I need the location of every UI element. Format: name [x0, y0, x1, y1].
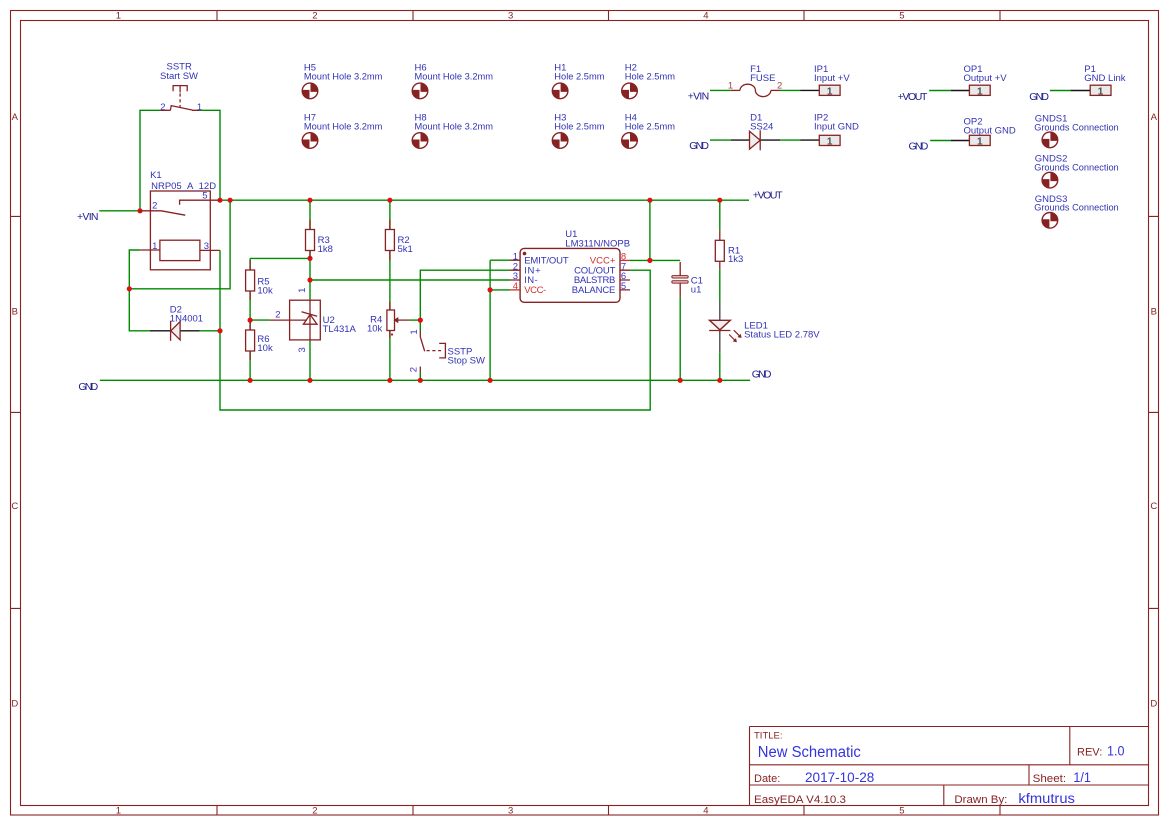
svg-text:Sheet:: Sheet: [1033, 773, 1067, 785]
svg-text:GND: GND [909, 140, 929, 152]
svg-text:1: 1 [728, 80, 733, 91]
svg-text:+VIN: +VIN [77, 211, 99, 223]
svg-text:2: 2 [160, 102, 165, 113]
svg-text:GND: GND [78, 381, 98, 393]
svg-text:1/1: 1/1 [1073, 770, 1091, 785]
svg-text:Hole 2.5mm: Hole 2.5mm [554, 71, 604, 82]
svg-text:2: 2 [409, 367, 420, 372]
svg-text:TL431A: TL431A [323, 324, 357, 335]
svg-text:D: D [1150, 698, 1157, 709]
svg-text:1: 1 [152, 241, 157, 252]
svg-text:3: 3 [204, 241, 209, 252]
svg-text:+VOUT: +VOUT [898, 91, 928, 103]
svg-text:Mount Hole 3.2mm: Mount Hole 3.2mm [415, 71, 494, 82]
svg-text:LM311N/NOPB: LM311N/NOPB [565, 238, 630, 249]
svg-text:FUSE: FUSE [750, 73, 775, 84]
svg-text:2: 2 [312, 806, 317, 817]
svg-text:Hole 2.5mm: Hole 2.5mm [554, 121, 604, 132]
svg-text:2: 2 [152, 201, 157, 212]
svg-text:10k: 10k [367, 323, 383, 334]
svg-text:3: 3 [508, 806, 513, 817]
svg-text:GND: GND [1029, 91, 1049, 103]
svg-text:Drawn By:: Drawn By: [954, 794, 1007, 806]
svg-text:1N4001: 1N4001 [170, 313, 203, 324]
svg-text:1: 1 [197, 102, 202, 113]
svg-text:Status LED 2.78V: Status LED 2.78V [744, 329, 820, 340]
svg-text:K1: K1 [150, 170, 162, 181]
svg-text:5k1: 5k1 [398, 244, 413, 255]
svg-text:1: 1 [409, 329, 420, 334]
svg-text:1k8: 1k8 [318, 244, 333, 255]
svg-text:2017-10-28: 2017-10-28 [805, 770, 874, 785]
svg-text:D: D [11, 698, 18, 709]
svg-text:Grounds Connection: Grounds Connection [1034, 203, 1119, 214]
svg-text:VCC-: VCC- [524, 285, 546, 296]
svg-text:NRP05_A_12D: NRP05_A_12D [151, 181, 216, 192]
svg-text:4: 4 [703, 11, 708, 22]
svg-text:SS24: SS24 [750, 121, 773, 132]
svg-text:1: 1 [827, 86, 833, 97]
svg-text:GND Link: GND Link [1084, 73, 1125, 84]
svg-text:1: 1 [297, 288, 308, 293]
svg-text:1: 1 [116, 806, 121, 817]
svg-text:Hole 2.5mm: Hole 2.5mm [625, 71, 675, 82]
svg-text:1k3: 1k3 [728, 254, 743, 265]
svg-text:+VOUT: +VOUT [753, 190, 783, 202]
svg-text:Output +V: Output +V [964, 73, 1008, 84]
svg-text:1.0: 1.0 [1107, 744, 1125, 759]
svg-text:kfmutrus: kfmutrus [1018, 791, 1075, 806]
svg-text:2: 2 [275, 309, 280, 320]
svg-text:Input GND: Input GND [814, 121, 859, 132]
svg-text:10k: 10k [257, 343, 273, 354]
svg-text:5: 5 [621, 281, 626, 292]
svg-text:+VIN: +VIN [688, 91, 710, 103]
svg-text:2: 2 [777, 81, 782, 92]
svg-text:Mount Hole 3.2mm: Mount Hole 3.2mm [304, 121, 383, 132]
svg-text:C: C [11, 501, 18, 512]
svg-text:Input +V: Input +V [814, 73, 850, 84]
svg-text:B: B [1151, 307, 1157, 318]
svg-text:Stop SW: Stop SW [448, 356, 486, 367]
svg-text:3: 3 [508, 11, 513, 22]
svg-text:Grounds Connection: Grounds Connection [1034, 122, 1119, 133]
svg-text:New Schematic: New Schematic [758, 744, 861, 761]
svg-text:Grounds Connection: Grounds Connection [1034, 163, 1119, 174]
svg-text:Mount Hole 3.2mm: Mount Hole 3.2mm [304, 71, 383, 82]
svg-text:BALANCE: BALANCE [572, 285, 616, 296]
svg-text:REV:: REV: [1077, 747, 1102, 759]
svg-text:Hole 2.5mm: Hole 2.5mm [625, 121, 675, 132]
svg-text:B: B [12, 307, 18, 318]
svg-text:GND: GND [689, 140, 709, 152]
svg-text:5: 5 [899, 11, 904, 22]
svg-text:3: 3 [297, 347, 308, 352]
svg-text:EasyEDA V4.10.3: EasyEDA V4.10.3 [754, 794, 846, 806]
svg-text:1: 1 [116, 11, 121, 22]
svg-text:u1: u1 [691, 284, 702, 295]
svg-text:A: A [12, 112, 19, 123]
svg-text:5: 5 [899, 806, 904, 817]
svg-text:TITLE:: TITLE: [754, 731, 783, 742]
svg-text:GND: GND [752, 369, 772, 381]
svg-text:10k: 10k [257, 285, 273, 296]
svg-text:Date:: Date: [754, 773, 780, 785]
svg-text:2: 2 [312, 11, 317, 22]
svg-text:Output GND: Output GND [964, 125, 1016, 136]
svg-text:4: 4 [513, 281, 518, 292]
svg-text:A: A [1151, 112, 1158, 123]
svg-text:C: C [1150, 501, 1157, 512]
svg-text:Mount Hole 3.2mm: Mount Hole 3.2mm [415, 121, 494, 132]
svg-text:4: 4 [703, 806, 708, 817]
svg-text:Start SW: Start SW [160, 71, 198, 82]
